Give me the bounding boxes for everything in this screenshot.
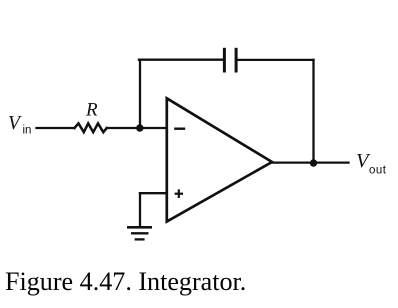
svg-text:in: in: [23, 125, 32, 137]
wire op-amp output to node B: [273, 161, 349, 163]
svg-text:Figure 4.47. Integrator.: Figure 4.47. Integrator.: [5, 267, 246, 296]
wire feedback down to output node: [312, 60, 314, 163]
node B output junction dot: [310, 159, 317, 166]
wire node A up to feedback: [139, 60, 141, 129]
capacitor C1: [224, 49, 236, 71]
wire Vin to resistor: [37, 127, 75, 129]
wire op-amp + input: [140, 192, 167, 194]
wire resistor to node A: [107, 127, 140, 129]
minus label on inverting input: [174, 127, 185, 129]
svg-text:V: V: [8, 113, 22, 134]
wire node A to op-amp inverting input: [140, 127, 167, 129]
svg-text:R: R: [85, 100, 98, 121]
ground: [127, 227, 152, 239]
svg-text:out: out: [369, 165, 387, 177]
plus label on non-inverting input: [175, 189, 183, 198]
label Vin: [8, 113, 31, 137]
wire + input to ground: [139, 193, 141, 227]
node A junction dot: [136, 124, 143, 131]
wire feedback top left: [139, 59, 223, 61]
resistor R1: [75, 123, 107, 132]
wire feedback top right: [238, 59, 314, 61]
label Vout: [356, 150, 387, 177]
op-amp U1: [167, 98, 272, 221]
